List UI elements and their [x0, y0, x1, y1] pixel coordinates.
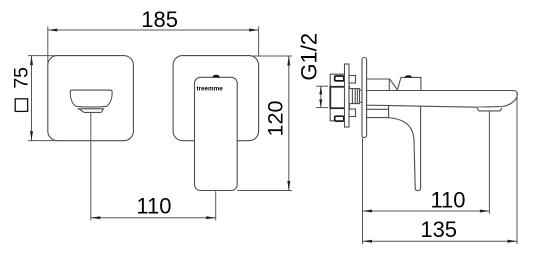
mounting screw top [335, 76, 344, 81]
dimension 120 arrow top [287, 56, 290, 66]
cartridge shoulder line [390, 79, 397, 89]
dimension 120 extension line top [250, 55, 292, 57]
dimension 110 side line [363, 210, 490, 212]
handle knob (front view) [212, 75, 220, 78]
dimension 135 line [363, 240, 518, 242]
dimension 120 line [288, 56, 290, 191]
dimension 75 arrow top [30, 56, 33, 66]
svg-text:75: 75 [11, 67, 33, 89]
dimension 75 extension line bottom [28, 140, 57, 142]
dimension 75 arrow bottom [30, 131, 33, 141]
aerator (side view) [477, 107, 502, 111]
dimension 110 side arrow right [480, 210, 490, 213]
dimension 120 extension line bottom [237, 190, 292, 192]
dimension 120 arrow bottom [287, 181, 290, 191]
dimension 185 line [48, 29, 259, 31]
dimension 185 extension line left [47, 27, 49, 65]
dimension 135 arrow right [508, 240, 518, 243]
pipe stub to flange top line [360, 89, 363, 91]
dimension 75 line [31, 56, 33, 141]
spout bowl (front view) [70, 90, 112, 107]
handle grip top (side view) [397, 77, 421, 90]
screw shaft bottom [349, 109, 356, 117]
dimension 110 side arrow left [363, 210, 373, 213]
dimension 110 front line [91, 217, 216, 219]
union nut facet lines [351, 89, 353, 104]
bracket bar [345, 64, 350, 127]
lower body step line [367, 108, 389, 110]
upper body (side view) [367, 79, 390, 91]
screw shaft top [349, 76, 356, 84]
dimension 110 front arrow left [91, 216, 101, 219]
union nut [349, 89, 360, 104]
lower body (side view) [367, 105, 389, 117]
dimension 185 arrow right [249, 29, 259, 32]
pipe stub to flange bottom line [360, 101, 363, 103]
dimension 185 extension line right [258, 27, 260, 57]
dimension 75 extension line top [28, 55, 57, 57]
svg-text:110: 110 [136, 194, 171, 219]
rough-in box behind wall [330, 74, 345, 121]
spout (side view) [367, 91, 518, 108]
dimension 110 front leader from spout [90, 113, 92, 221]
dimension 110 front leader from lever [215, 191, 217, 220]
wall flange (side view) [362, 58, 367, 138]
square symbol of dimension 75 [15, 99, 27, 112]
mounting screw bottom [335, 116, 344, 121]
handle knob (side view) [404, 75, 412, 77]
right wall plate (front view) [173, 56, 259, 141]
handle lever (side view) [389, 106, 421, 191]
svg-text:135: 135 [420, 217, 457, 242]
svg-text:120: 120 [264, 101, 288, 137]
dimension 185 arrow left [48, 29, 58, 32]
spout foot (front view) [79, 109, 104, 113]
svg-text:G1/2: G1/2 [297, 33, 322, 81]
dimension G1/2 extension line bottom [316, 107, 328, 109]
dimension 135 arrow left [363, 240, 373, 243]
svg-text:110: 110 [430, 187, 465, 212]
left wall plate (front view) [48, 56, 134, 141]
dimension G1/2 extension line top [316, 85, 328, 87]
dimension G1/2 arrow top [319, 86, 322, 94]
dimension G1/2 line [320, 86, 322, 107]
G1/2 union square [330, 87, 349, 108]
wall extension line [362, 138, 364, 244]
aerator leader line [488, 111, 490, 214]
dimension 110 front arrow right [206, 216, 216, 219]
dimension G1/2 arrow bottom [319, 99, 322, 107]
svg-text:treemme: treemme [196, 85, 223, 92]
spout tip extension line [516, 93, 518, 244]
handle lever (front view) [195, 77, 238, 190]
svg-text:185: 185 [141, 7, 178, 32]
